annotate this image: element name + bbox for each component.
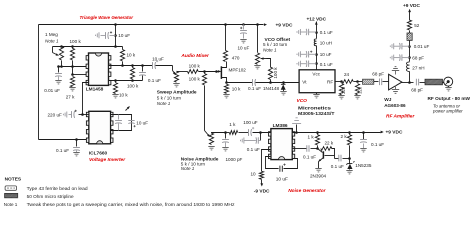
ground (below RF connector)	[448, 87, 450, 88]
capacitor 0.1 uF (noise rail bypass)	[362, 131, 365, 134]
wire bottom feed to ICL7660	[39, 139, 89, 141]
wire LM386 gain loop	[266, 157, 298, 169]
ground (below sweep pot)	[173, 84, 179, 87]
resistor 100 k (mixer input 2, vertical)	[202, 74, 206, 86]
svg-text:0.1 uF: 0.1 uF	[371, 142, 384, 147]
inverter U4 ICL7660	[89, 111, 111, 144]
resistor 1 k (to noise pot)	[229, 131, 237, 135]
capacitor 220 uF (reservoir)	[79, 114, 89, 116]
svg-text:100 k: 100 k	[70, 39, 82, 44]
svg-text:10 uF: 10 uF	[320, 52, 332, 57]
wire charge-pump loop	[111, 115, 132, 131]
svg-text:0.1 uF: 0.1 uF	[247, 147, 260, 152]
svg-text:1000 pF: 1000 pF	[226, 157, 243, 162]
svg-text:27 nH: 27 nH	[412, 65, 424, 70]
node source junction	[225, 81, 228, 84]
resistor 220 (pad shunt 2)	[355, 84, 359, 95]
ground (below VCO offset pot)	[254, 66, 260, 69]
ground (below 220 #2)	[354, 96, 360, 99]
diode D1 1N4148	[282, 81, 285, 84]
svg-text:0.1 uF: 0.1 uF	[320, 62, 333, 67]
resistor 470 (drain load)	[223, 51, 227, 62]
ferrite bead (RF line)	[363, 79, 374, 84]
svg-text:RF Output - 80 mW: RF Output - 80 mW	[428, 96, 471, 102]
svg-text:AG603-86: AG603-86	[384, 103, 406, 109]
svg-text:1 k: 1 k	[308, 134, 315, 139]
svg-text:Note 1: Note 1	[45, 38, 59, 43]
power flag +9 VDC (top)	[264, 23, 267, 26]
svg-text:0.01 uF: 0.01 uF	[414, 44, 430, 49]
ground (below noise pot)	[208, 147, 214, 150]
svg-text:10: 10	[251, 171, 257, 176]
svg-text:Type 43 ferrite bead on lead: Type 43 ferrite bead on lead	[27, 186, 88, 191]
oscillator U2 Micronetics VCO box	[299, 70, 335, 93]
resistor 27 k	[70, 77, 74, 88]
svg-text:2 k: 2 k	[341, 134, 348, 139]
svg-text:-9 VDC: -9 VDC	[254, 189, 270, 195]
svg-text:Triangle Wave Generator: Triangle Wave Generator	[80, 15, 135, 21]
wire amp output	[402, 82, 414, 84]
svg-text:100 k: 100 k	[273, 67, 278, 79]
svg-text:10 uF: 10 uF	[276, 177, 288, 183]
ground (below 220 #1)	[338, 96, 344, 99]
svg-text:100 k: 100 k	[127, 83, 139, 88]
wire RF output of VCO	[336, 81, 343, 83]
capacitor 1000 pF	[225, 133, 227, 139]
capacitor 10 uF (gain)	[279, 166, 284, 173]
svg-text:RF: RF	[327, 80, 333, 85]
svg-text:0.01 uF: 0.01 uF	[44, 88, 60, 93]
svg-text:0.1 uF: 0.1 uF	[303, 154, 316, 159]
ground (below 0.1 uF inverter bypass)	[73, 153, 79, 156]
capacitor 0.1 uF (Vt coupling)	[227, 82, 253, 84]
wire LM1458 inverting feedback	[109, 80, 143, 82]
capacitor 10 uF (triangle gen supply bypass)	[114, 34, 117, 37]
power flag +9 VDC (noise section)	[381, 131, 384, 134]
ground (below VCO box)	[316, 93, 318, 95]
svg-text:0.1 uF: 0.1 uF	[56, 148, 69, 153]
svg-text:22 k: 22 k	[325, 141, 334, 146]
svg-text:Note 1: Note 1	[4, 202, 18, 207]
resistor 10 k (integrator top)	[122, 47, 124, 50]
svg-text:68 pF: 68 pF	[372, 71, 384, 76]
diode D2 zener 1N5235	[349, 159, 351, 164]
svg-text:Micronetics: Micronetics	[298, 105, 331, 111]
node mixer summing junction	[203, 70, 206, 73]
capacitor 0.1 uF (+12 bypass)	[315, 31, 318, 34]
svg-text:MPF102: MPF102	[229, 67, 247, 72]
svg-text:Vt: Vt	[302, 80, 307, 85]
resistor 2 k (zener bias)	[347, 135, 351, 145]
svg-text:10 k: 10 k	[119, 93, 128, 98]
svg-text:2N3904: 2N3904	[310, 173, 327, 178]
resistor 100 k (mixer input 1)	[181, 71, 188, 73]
svg-text:68 pF: 68 pF	[411, 88, 423, 93]
amplifier U5 LM386	[271, 129, 292, 160]
svg-text:RF Amplifier: RF Amplifier	[386, 113, 415, 119]
transistor Q2 2N3904	[318, 149, 323, 153]
svg-text:+9 VDC: +9 VDC	[403, 3, 420, 9]
node RF pad junction 2	[356, 80, 359, 83]
op-amp U1 LM1458	[89, 53, 109, 85]
wire LM386 input network	[239, 132, 249, 134]
svg-text:ICL7660: ICL7660	[89, 150, 108, 156]
svg-text:52: 52	[414, 23, 420, 28]
svg-text:10 uF: 10 uF	[152, 56, 164, 61]
svg-text:Note 1: Note 1	[263, 47, 277, 52]
svg-text:10 uH: 10 uH	[320, 40, 332, 45]
capacitor 10 uF (inverter output)	[128, 120, 134, 122]
svg-text:100 uF: 100 uF	[243, 120, 257, 125]
capacitor 68 pF (output coupling)	[416, 79, 418, 86]
wire op-amp input upper	[59, 66, 89, 68]
wire noise coupling	[293, 148, 307, 150]
svg-text:0.1 uF: 0.1 uF	[320, 30, 333, 35]
svg-text:100 k: 100 k	[189, 77, 201, 82]
svg-text:power amplifier: power amplifier	[432, 108, 463, 113]
svg-text:M3005-1324S/T: M3005-1324S/T	[298, 111, 335, 117]
amplifier U3 WJ AG603-86	[389, 74, 402, 90]
svg-text:10 uF: 10 uF	[238, 46, 250, 51]
wire op-amp input lower	[73, 74, 89, 76]
capacitor 68 pF (amp input coupling)	[380, 79, 382, 86]
svg-text:1N4148: 1N4148	[263, 86, 280, 91]
resistor 10 (to -9V)	[262, 150, 271, 172]
ground (below 0.01 uF)	[55, 81, 61, 84]
svg-text:Voltage Inverter: Voltage Inverter	[89, 157, 126, 163]
node junction at bottom feed	[75, 138, 78, 141]
note symbol ferrite bead	[5, 186, 16, 190]
svg-text:LM1458: LM1458	[86, 87, 104, 93]
svg-text:1N5235: 1N5235	[355, 163, 372, 168]
capacitor 10 uF (output coupling)	[152, 62, 154, 69]
ground (below amp)	[395, 86, 397, 90]
resistor 1 k (noise collector load)	[315, 135, 319, 145]
wire +9V top rail	[39, 24, 264, 26]
svg-text:LM386: LM386	[273, 123, 288, 129]
wire LM386 supply rail	[293, 132, 381, 134]
ground (below 1000 pF)	[222, 148, 228, 151]
svg-text:10 uF: 10 uF	[118, 33, 130, 38]
svg-text:1 Meg: 1 Meg	[45, 32, 58, 37]
capacitor pump (between pins)	[118, 115, 120, 120]
stripline (50 ohm)	[425, 79, 443, 85]
capacitor 0.1 uF (input bypass)	[260, 133, 262, 141]
svg-text:220: 220	[341, 86, 346, 94]
wire Vt line	[256, 82, 300, 84]
resistor 220 (pad shunt 1)	[339, 84, 343, 95]
node zener junction	[348, 157, 351, 160]
ground (below 1N4148)	[280, 92, 286, 95]
svg-text:10 k: 10 k	[232, 87, 241, 92]
svg-text:WJ: WJ	[384, 97, 392, 103]
wire +9V drop to triangle-gen rail	[115, 25, 117, 47]
svg-text:NOTES: NOTES	[5, 177, 22, 183]
svg-text:Noise Generator: Noise Generator	[288, 188, 326, 194]
inductor 27 nH	[407, 62, 410, 72]
RF connector J1	[444, 77, 453, 86]
potentiometer R 1 Meg	[52, 47, 54, 53]
capacitor 0.1 uF (Vcc bypass 2)	[315, 62, 318, 65]
svg-text:24: 24	[344, 72, 350, 77]
capacitor 10 uF (supply bypass at 470)	[242, 23, 245, 26]
svg-text:Tweak these pots to get a swee: Tweak these pots to get a sweeping carri…	[27, 202, 236, 207]
capacitor 0.01 uF	[58, 67, 60, 73]
svg-text:0.1 uF: 0.1 uF	[148, 78, 161, 83]
svg-text:0.1 uF: 0.1 uF	[248, 86, 261, 91]
svg-text:Note 1: Note 1	[181, 166, 195, 171]
svg-text:+9 VDC: +9 VDC	[276, 23, 293, 29]
svg-text:68 pF: 68 pF	[412, 56, 424, 61]
svg-text:Note 1: Note 1	[157, 101, 171, 106]
ground (below 27 k)	[69, 88, 75, 91]
resistor 22 k (feedback)	[325, 155, 335, 157]
resistor 100 k (feedback)	[130, 68, 134, 80]
wire triangle-gen +9V rail	[53, 46, 123, 48]
wire LM1458 V- to inverter output	[83, 83, 89, 115]
capacitor 0.1 uF (inverter input bypass)	[76, 140, 78, 147]
svg-text:50 Ohm micro stripline: 50 Ohm micro stripline	[27, 194, 74, 199]
svg-text:Vcc: Vcc	[312, 71, 320, 76]
potentiometer R VCO Offset 5k	[256, 23, 259, 26]
svg-text:+12 VDC: +12 VDC	[307, 16, 327, 22]
svg-text:5 k / 10 turn: 5 k / 10 turn	[157, 95, 182, 100]
resistor 10 k (to ground)	[113, 83, 117, 94]
ground (below 2N3904)	[315, 169, 321, 172]
svg-text:100 k: 100 k	[189, 64, 201, 69]
svg-text:10 k: 10 k	[127, 52, 136, 57]
ferrite bead (RF amp feed)	[407, 33, 412, 40]
svg-text:220: 220	[358, 86, 363, 94]
node amp output junction	[408, 81, 411, 84]
capacitor 100 uF (input coupling)	[248, 129, 250, 136]
capacitor bypass (pin 7, above LM386)	[296, 125, 298, 133]
capacitor 10 uF (Vcc bypass)	[315, 53, 318, 56]
capacitor 0.1 uF (noise out coupling)	[307, 145, 309, 152]
note symbol stripline	[5, 193, 18, 197]
svg-text:1 k: 1 k	[229, 122, 236, 127]
svg-text:470: 470	[232, 55, 240, 60]
ground (below zener)	[346, 171, 352, 174]
node collector junction	[316, 147, 319, 150]
svg-text:+9 VDC: +9 VDC	[386, 129, 403, 135]
ground (below rail bypass)	[360, 149, 366, 152]
transistor Q1 MPF102 JFET	[215, 70, 218, 73]
wire LM1458 output	[109, 65, 153, 67]
svg-text:VCO: VCO	[297, 98, 308, 104]
power flag -9V output arrow	[126, 107, 130, 111]
potentiometer R Noise Amplitude 5k	[212, 133, 226, 134]
resistor 24 (pad series)	[342, 80, 353, 84]
resistor 52	[407, 20, 411, 30]
node noise pot node	[224, 131, 227, 134]
svg-text:27 k: 27 k	[66, 94, 75, 99]
ground (below 10 uF bypass)	[240, 40, 246, 43]
inductor 10 uH	[314, 39, 316, 46]
capacitor 0.01 uF (feed bypass)	[408, 45, 411, 48]
potentiometer R Sweep Amplitude 5k	[172, 66, 174, 71]
svg-text:Audio Mixer: Audio Mixer	[180, 53, 210, 59]
wire left border (+9V feed to inverter)	[38, 25, 40, 140]
capacitor 0.1 uF (zener noise coupling)	[335, 158, 339, 160]
svg-text:220 uF: 220 uF	[48, 112, 62, 117]
resistor 10 k (source)	[224, 84, 228, 93]
resistor 100 k (VCO offset series)	[267, 59, 271, 68]
ground (below 10 k)	[112, 95, 118, 98]
capacitor 0.1 uF (feedback)	[142, 66, 144, 72]
power flag -9 VDC	[261, 180, 263, 184]
svg-text:0.1 uF: 0.1 uF	[331, 164, 344, 169]
svg-text:10 uF: 10 uF	[136, 120, 148, 125]
resistor 100 k (triangle gen, upper left)	[70, 48, 74, 60]
ground (below 10 k source)	[223, 95, 229, 98]
node RF pad junction 1	[340, 80, 343, 83]
ground (above amp)	[395, 71, 397, 75]
capacitor 68 pF (feed bypass)	[408, 56, 411, 59]
